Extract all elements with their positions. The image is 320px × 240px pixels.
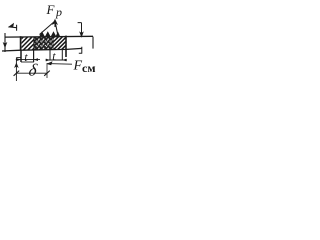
plate right edge bbox=[92, 37, 94, 49]
hatch right plate section bbox=[41, 36, 79, 50]
dimension t (left): extension lines bbox=[20, 50, 22, 62]
inner wall x=52 bbox=[52, 37, 54, 50]
pressure fan lines bbox=[40, 21, 58, 35]
dimension t (left): dimension line bbox=[16, 59, 40, 61]
step at right end of lower plate bbox=[79, 47, 82, 53]
leader F_cm arrowhead bbox=[46, 61, 52, 65]
right force arrow (down) with hook bbox=[78, 23, 84, 38]
plate top edge bbox=[5, 35, 93, 38]
inner wall x=34 bbox=[33, 37, 35, 50]
dimension t (left): arrowheads bbox=[17, 58, 38, 61]
dimension delta: right extension bbox=[46, 64, 48, 78]
pressure arrowheads on surface bbox=[39, 31, 60, 36]
plate bottom edge bbox=[2, 48, 82, 51]
left force arrow (down) bbox=[3, 42, 8, 48]
force arrow F_p resultant (apex arrowhead) bbox=[52, 19, 58, 27]
inner wall x=20.5 bbox=[20, 36, 22, 50]
svg-text:p: p bbox=[55, 5, 62, 19]
dimension t (right): dimension line bbox=[46, 59, 68, 61]
hatch left plate section bbox=[10, 36, 46, 50]
label F_cm bbox=[73, 59, 96, 76]
cross-hatch rivet section bbox=[34, 37, 54, 50]
svg-text:F: F bbox=[46, 2, 56, 17]
svg-text:F: F bbox=[73, 59, 83, 74]
dimension delta: dim line bbox=[16, 72, 47, 74]
dimension delta: up arrowhead bbox=[14, 62, 19, 68]
inner wall x=66.5 bbox=[65, 36, 67, 57]
label F_p bbox=[46, 2, 63, 19]
lower plate bottom edge (left) bbox=[21, 61, 34, 63]
plate left edge bbox=[4, 33, 6, 52]
dimension t (right): extension lines bbox=[50, 50, 62, 60]
dimension delta: extension line bbox=[15, 58, 17, 81]
dimension t (right): arrowheads bbox=[46, 59, 67, 62]
top-left tick arrow bbox=[8, 23, 17, 31]
lower plate left end bbox=[16, 57, 20, 59]
dimension delta: slash ticks bbox=[14, 71, 50, 76]
leader F_cm line bbox=[47, 63, 72, 66]
svg-text:см: см bbox=[82, 61, 96, 75]
